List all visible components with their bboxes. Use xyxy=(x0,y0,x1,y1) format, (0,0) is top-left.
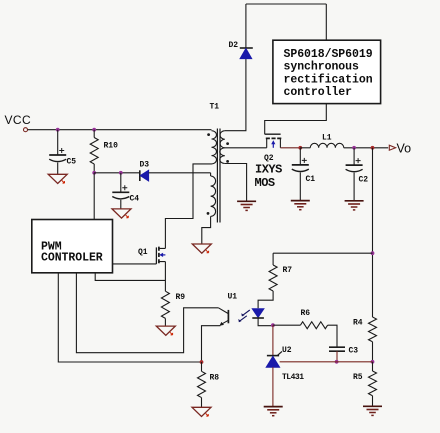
svg-text:U1: U1 xyxy=(228,293,238,302)
wire xyxy=(265,104,327,135)
wire xyxy=(201,398,203,408)
resistor R5 xyxy=(353,371,377,396)
svg-text:C5: C5 xyxy=(67,158,77,167)
node junction feedback xyxy=(371,146,375,150)
ground xyxy=(345,200,364,202)
wire xyxy=(225,147,267,149)
wire xyxy=(94,172,140,174)
wire xyxy=(299,172,301,200)
svg-text:U2: U2 xyxy=(282,346,292,355)
diode D3 xyxy=(140,161,150,182)
wire xyxy=(57,163,59,175)
wire xyxy=(273,252,372,254)
svg-text:R5: R5 xyxy=(353,373,363,382)
ground xyxy=(48,174,67,183)
svg-text:C3: C3 xyxy=(349,347,359,356)
resistor R7 xyxy=(269,265,292,291)
resistor R8 xyxy=(198,371,220,397)
svg-text:R9: R9 xyxy=(176,293,186,302)
wire xyxy=(201,362,203,371)
op-amp U4 PWM controller box xyxy=(32,220,113,273)
capacitor C4 xyxy=(112,185,139,203)
op-amp U1 optocoupler xyxy=(218,293,264,326)
wire xyxy=(245,4,247,48)
svg-text:R6: R6 xyxy=(301,309,311,318)
svg-text:T1: T1 xyxy=(210,103,220,112)
ground xyxy=(291,200,310,202)
wire xyxy=(93,164,95,173)
wire xyxy=(76,273,218,353)
wire xyxy=(28,129,212,131)
svg-text:C2: C2 xyxy=(359,176,369,185)
transformer T1 core xyxy=(210,103,221,223)
wire xyxy=(210,173,212,176)
svg-text:Q1: Q1 xyxy=(138,248,148,257)
text IXYS MOS xyxy=(255,163,283,191)
wire xyxy=(344,147,389,149)
svg-text:controller: controller xyxy=(284,86,353,99)
svg-text:VCC: VCC xyxy=(5,113,32,127)
svg-text:L1: L1 xyxy=(322,134,332,143)
node junction R7 line xyxy=(371,251,375,255)
wire xyxy=(353,173,355,201)
ground xyxy=(112,209,131,218)
node junction C4 xyxy=(119,171,123,175)
wire xyxy=(149,172,211,174)
svg-text:R8: R8 xyxy=(210,374,220,383)
svg-text:synchronous: synchronous xyxy=(284,61,360,74)
node junction R10 xyxy=(92,128,96,132)
wire xyxy=(372,362,374,371)
svg-text:MOS: MOS xyxy=(255,176,275,190)
node junction divider xyxy=(371,360,375,364)
wire xyxy=(372,148,374,317)
diode D2 xyxy=(229,41,253,59)
wire xyxy=(225,164,247,202)
wire xyxy=(165,164,211,249)
wire xyxy=(225,59,246,131)
node junction C3 xyxy=(335,360,339,364)
capacitor C2 xyxy=(346,158,369,184)
ground xyxy=(363,405,382,407)
wire xyxy=(93,173,95,220)
svg-text:rectification: rectification xyxy=(284,73,373,86)
wire xyxy=(372,396,374,407)
svg-text:Vo: Vo xyxy=(397,142,412,156)
svg-text:R7: R7 xyxy=(283,266,293,275)
capacitor C1 xyxy=(292,158,316,184)
wire xyxy=(202,216,211,244)
wire xyxy=(246,3,326,5)
wire xyxy=(57,130,59,155)
wire xyxy=(113,263,157,265)
node junction R10-C4 xyxy=(92,171,96,175)
node VCC port xyxy=(5,113,32,132)
wire xyxy=(120,200,122,209)
wire xyxy=(272,325,274,355)
ground xyxy=(237,200,256,202)
inductor L1 xyxy=(310,134,343,148)
inductor T1 aux winding xyxy=(207,176,216,216)
transistor Q2 xyxy=(264,134,281,163)
ground xyxy=(264,406,283,408)
diode U2 TL431 xyxy=(266,346,304,382)
node junction U2 xyxy=(271,323,275,327)
inductor T1 secondary xyxy=(220,131,229,164)
wire xyxy=(58,273,201,362)
wire xyxy=(372,342,374,362)
svg-text:R10: R10 xyxy=(104,142,119,151)
wire xyxy=(328,325,337,347)
node Vo port xyxy=(389,142,411,156)
ground xyxy=(156,326,175,335)
wire xyxy=(272,367,274,406)
ground xyxy=(192,244,211,253)
wire xyxy=(164,318,166,326)
wire xyxy=(95,273,165,281)
resistor R4 xyxy=(353,317,377,342)
wire xyxy=(280,147,300,149)
capacitor C3 xyxy=(329,347,358,356)
svg-text:SP6018/SP6019: SP6018/SP6019 xyxy=(284,48,373,61)
svg-text:D2: D2 xyxy=(229,41,239,50)
wire xyxy=(299,148,301,165)
wire xyxy=(93,130,95,138)
node junction R8 xyxy=(200,360,204,364)
op-amp U3 SP6018 controller box xyxy=(273,40,381,103)
wire xyxy=(273,324,301,326)
svg-text:TL431: TL431 xyxy=(282,373,304,382)
wire xyxy=(202,326,221,362)
wire xyxy=(280,361,373,363)
wire xyxy=(325,4,327,40)
wire xyxy=(336,351,338,362)
svg-text:R4: R4 xyxy=(353,319,363,328)
wire xyxy=(120,173,122,193)
capacitor C5 xyxy=(49,148,76,167)
wire xyxy=(300,147,310,149)
svg-text:D3: D3 xyxy=(140,161,150,170)
wire xyxy=(353,148,355,165)
svg-text:IXYS: IXYS xyxy=(255,163,282,177)
svg-text:C4: C4 xyxy=(130,195,140,204)
resistor R10 xyxy=(90,138,118,165)
node junction C1 xyxy=(298,146,302,150)
transistor Q1 xyxy=(138,247,165,264)
inductor T1 primary xyxy=(207,131,216,164)
wire xyxy=(272,253,274,265)
svg-text:CONTROLER: CONTROLER xyxy=(41,251,103,264)
svg-text:C1: C1 xyxy=(306,175,316,184)
wire xyxy=(258,318,273,326)
resistor R9 xyxy=(161,291,185,318)
ground xyxy=(192,407,211,416)
wire xyxy=(258,291,273,308)
node junction C5 xyxy=(56,128,60,132)
node junction C2 xyxy=(352,146,356,150)
resistor R6 xyxy=(300,309,327,329)
wire xyxy=(164,262,166,292)
